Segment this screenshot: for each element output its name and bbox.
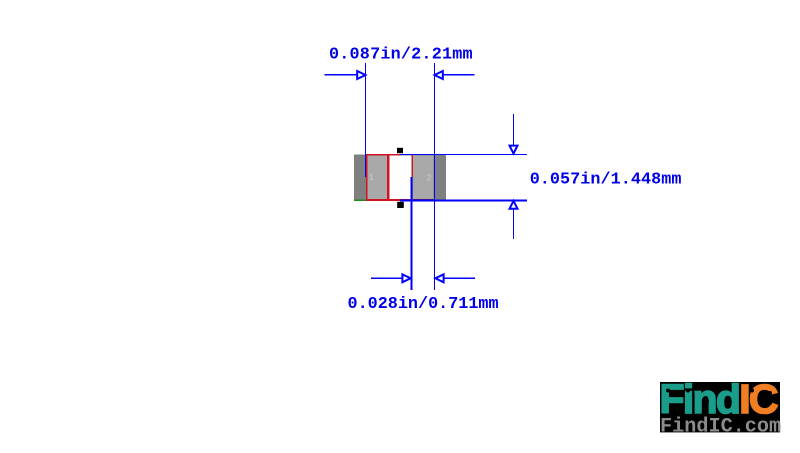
svg-text:0.028in/0.711mm: 0.028in/0.711mm <box>348 295 499 314</box>
svg-text:2: 2 <box>427 174 432 183</box>
svg-text:0.087in/2.21mm: 0.087in/2.21mm <box>329 45 473 64</box>
svg-text:1: 1 <box>369 173 374 182</box>
svg-text:0.057in/1.448mm: 0.057in/1.448mm <box>530 171 682 190</box>
